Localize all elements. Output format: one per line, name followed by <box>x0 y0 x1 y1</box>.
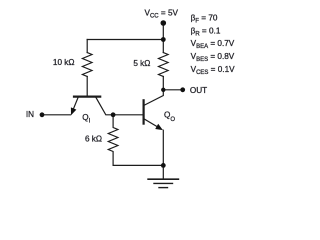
svg-text:VCES = 0.1V: VCES = 0.1V <box>191 65 236 76</box>
resistor 6 kOhm with leads <box>108 115 118 166</box>
ground symbol <box>147 179 179 187</box>
transistor Q_I emitter <box>72 98 78 114</box>
transistor Q_I collector <box>96 98 143 115</box>
svg-text:5 kΩ: 5 kΩ <box>133 59 150 68</box>
svg-text:βR = 0.1: βR = 0.1 <box>191 26 221 37</box>
arrowhead Q_O emitter <box>155 124 163 130</box>
wire Q_O emitter down to ground junction <box>162 130 164 165</box>
svg-text:QO: QO <box>164 111 175 123</box>
transistor Q_O emitter <box>145 119 157 126</box>
svg-text:VBES = 0.8V: VBES = 0.8V <box>191 52 235 63</box>
svg-text:QI: QI <box>82 113 90 124</box>
node VCC junction dot <box>161 37 166 42</box>
resistor 5 kOhm <box>159 53 169 77</box>
svg-text:VCC = 5V: VCC = 5V <box>145 9 179 20</box>
node IN terminal dot <box>40 112 45 117</box>
svg-text:IN: IN <box>26 110 34 119</box>
transistor Q_O base bar <box>143 100 145 123</box>
wire VCC vertical from supply dot down to 5k resistor top <box>162 23 164 53</box>
resistor 10 kOhm <box>82 53 92 77</box>
wire OUT lead <box>163 89 182 91</box>
node Q_I collector junction dot <box>111 112 116 117</box>
node OUT junction dot <box>161 88 165 92</box>
svg-text:10 kΩ: 10 kΩ <box>53 58 75 67</box>
svg-text:6 kΩ: 6 kΩ <box>85 135 102 144</box>
svg-text:βF = 70: βF = 70 <box>191 13 218 24</box>
wire IN lead <box>42 114 71 116</box>
wire Q_I base lead from 10k resistor to base bar <box>86 77 88 96</box>
node OUT terminal dot <box>180 87 185 92</box>
svg-text:VBEA = 0.7V: VBEA = 0.7V <box>191 39 235 50</box>
wire top horizontal from VCC junction to left branch <box>87 39 163 41</box>
wire ground stem <box>162 165 164 179</box>
arrowhead Q_I emitter <box>71 107 77 115</box>
wire left vertical down to 10k resistor <box>86 40 88 53</box>
svg-text:OUT: OUT <box>190 86 207 95</box>
node emitter-ground junction dot <box>161 163 166 168</box>
transistor Q_O collector <box>145 90 164 105</box>
transistor Q_I base bar <box>74 95 100 97</box>
node VCC terminal dot <box>161 20 167 26</box>
wire bottom horizontal to ground junction <box>113 164 163 166</box>
wire 5k resistor bottom to OUT junction <box>162 77 164 90</box>
